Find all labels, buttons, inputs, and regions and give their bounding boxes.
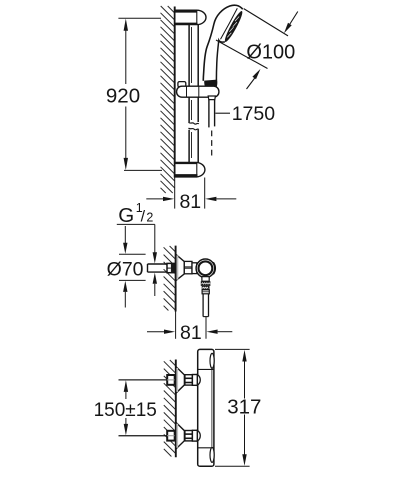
svg-text:81: 81 [180,322,202,344]
rail tube [189,25,199,163]
thread block at wall [167,263,175,272]
hand shower head face (dark) [223,10,245,44]
wall extension to 81 dim (middle) [175,312,177,339]
svg-text:317: 317 [227,396,261,419]
svg-text:1750: 1750 [232,103,276,125]
svg-text:81: 81 [179,191,201,213]
hand shower rim line [221,8,238,39]
hex nut (middle) [184,261,192,273]
label G 1/2 [117,201,155,227]
slider detail lines [187,87,199,98]
knurled ring 2 (dark) [202,286,210,290]
rail break squiggle [189,122,199,124]
valve body circle [196,259,215,278]
supply pipe stub [148,264,168,272]
wall hatching (top view) [161,6,175,193]
dimension 317 [215,349,250,466]
dimension Ø100 [216,9,298,89]
outlet neck [202,277,209,282]
dimension Ø70 arrows [119,226,146,308]
svg-text:Ø100: Ø100 [246,42,295,64]
thermostat bar [198,349,215,466]
hose [209,100,215,128]
hand shower outline (head + handle left) [203,5,242,81]
wall edge line (top view) [174,7,176,178]
top bracket of rail [175,10,206,24]
outlet pipe [203,294,208,317]
union top [119,367,201,394]
wall edge line (bottom view) [175,360,177,458]
knurled nut (dark) [201,281,211,286]
handle clamp (dark band) [204,80,217,89]
union bottom [119,422,201,449]
wall hatching (middle view) [164,246,176,311]
hose fitting below slider [208,96,215,100]
svg-text:Ø70: Ø70 [107,258,144,280]
wall edge line (middle view) [175,246,177,312]
svg-text:920: 920 [106,85,140,108]
spacer ring [192,263,197,274]
svg-text:150±15: 150±15 [94,400,157,421]
hand shower handle right contour [216,40,225,80]
hose continuation dash-dot [211,131,213,159]
extension line from outlet pipe [205,317,207,339]
dimension 81 (top view) [146,178,236,209]
wall extension line down to 81 dim [174,178,176,209]
slider knob [178,82,186,87]
escutcheon cone (middle) [176,254,184,280]
dimension 920 [118,18,162,170]
collar [202,290,209,294]
leader + label 1750 [215,112,230,114]
slider body [177,86,219,97]
bottom bracket of rail [175,162,205,177]
G1/2 leader arrow down to pipe [153,224,157,296]
svg-text:/: / [141,209,146,226]
dimension 150±15 [119,380,167,436]
svg-text:2: 2 [146,211,153,225]
svg-text:G: G [118,204,134,227]
dimension 81 (middle view) [147,330,232,334]
wall hatching (bottom view) [164,360,176,457]
